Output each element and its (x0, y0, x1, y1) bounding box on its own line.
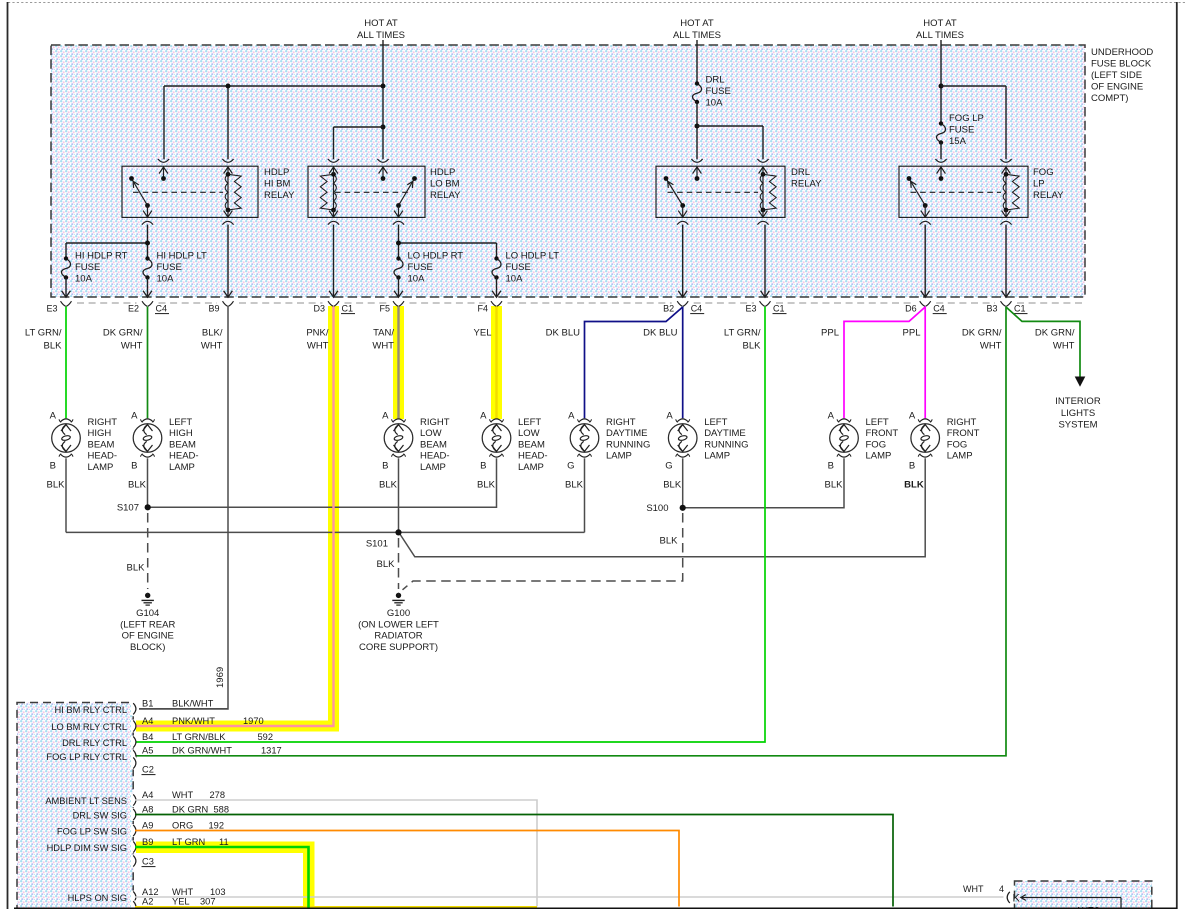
svg-text:HI BM: HI BM (264, 179, 290, 190)
svg-text:HEAD-: HEAD- (169, 451, 199, 462)
svg-text:ORG: ORG (172, 820, 193, 830)
svg-text:DK GRN: DK GRN (172, 804, 208, 814)
svg-text:B: B (382, 461, 388, 472)
svg-text:A4: A4 (142, 716, 153, 726)
svg-text:PPL: PPL (821, 328, 839, 339)
relay K2 HDLP LO BM box (308, 166, 425, 217)
connector E3/C1 at x=765 (760, 301, 771, 306)
connector B9 at x=228 (223, 301, 234, 306)
svg-text:A: A (131, 411, 138, 422)
connector F4 at x=496.5 (491, 301, 502, 306)
headlamp switch box (dashed, blue fill) (1015, 881, 1152, 909)
svg-text:BLK: BLK (127, 563, 146, 574)
svg-text:TAN/: TAN/ (373, 328, 394, 339)
lamp: left front fog lamp (830, 424, 859, 453)
svg-text:LAMP: LAMP (606, 451, 632, 462)
svg-text:WHT: WHT (172, 790, 193, 800)
svg-text:BLK/WHT: BLK/WHT (172, 699, 214, 709)
svg-text:A8: A8 (142, 804, 153, 814)
svg-text:A9: A9 (142, 820, 153, 830)
svg-text:G100: G100 (387, 608, 410, 619)
svg-text:HEAD-: HEAD- (88, 451, 118, 462)
wire ORG A9 fog lamp switch signal (circuit 192) (135, 831, 679, 907)
wire FOG coil out to border B3 (1005, 225, 1007, 297)
svg-text:B9: B9 (208, 304, 219, 314)
svg-text:B3: B3 (986, 304, 997, 314)
relay K1 HDLP HI BM actuator dashed link (133, 191, 223, 193)
svg-text:LOW: LOW (420, 428, 442, 439)
svg-text:FUSE: FUSE (75, 262, 100, 273)
wire BLK left DRL to S100 (682, 458, 684, 508)
svg-text:103: 103 (210, 887, 226, 897)
svg-text:HOT AT: HOT AT (680, 18, 714, 29)
svg-text:E2: E2 (128, 304, 139, 314)
svg-text:C1: C1 (773, 304, 785, 314)
relay K1 HDLP HI BM switch blade (132, 179, 148, 206)
svg-text:HLPS ON SIG: HLPS ON SIG (68, 893, 127, 903)
svg-text:HOT AT: HOT AT (923, 18, 957, 29)
relay K4 FOG LP coil bottom pin (1005, 210, 1007, 217)
feed wire 1 (x=383) (382, 40, 384, 159)
relay K1 HDLP HI BM switch feed pin (158, 159, 169, 162)
relay K3 DRL switch output pin (682, 206, 684, 218)
svg-text:ALL TIMES: ALL TIMES (357, 30, 405, 41)
svg-text:A: A (828, 411, 835, 422)
relay K1 HDLP HI BM switch output pin (147, 206, 149, 218)
svg-text:AMBIENT LT SENS: AMBIENT LT SENS (45, 796, 127, 806)
svg-text:LT GRN/: LT GRN/ (25, 328, 62, 339)
svg-text:1969: 1969 (215, 667, 226, 688)
svg-text:HDLP: HDLP (430, 167, 455, 178)
relay K2 HDLP LO BM coil top pin (328, 159, 339, 162)
relay K4 FOG LP switch output pin (924, 206, 926, 218)
LO HDLP RT FUSE 10A (394, 259, 403, 278)
svg-text:D3: D3 (313, 304, 325, 314)
svg-text:DK GRN/WHT: DK GRN/WHT (172, 746, 232, 756)
svg-text:592: 592 (258, 732, 274, 742)
wire BLK/WHT row B1 (drawn above) joins corner (139, 708, 228, 710)
svg-text:10A: 10A (75, 274, 93, 285)
connector D3/C1 at x=333.5 (328, 301, 339, 306)
svg-text:LAMP: LAMP (866, 451, 892, 462)
svg-text:BLK: BLK (477, 480, 496, 491)
svg-text:RELAY: RELAY (264, 190, 295, 201)
wire DK GRN A8 DRL switch signal (circuit 588) (135, 815, 893, 907)
svg-text:G: G (567, 461, 574, 472)
svg-text:278: 278 (210, 790, 226, 800)
svg-text:RIGHT: RIGHT (947, 417, 977, 428)
svg-text:RIGHT: RIGHT (88, 417, 118, 428)
svg-text:LAMP: LAMP (88, 462, 114, 473)
page border top dotted (8, 2, 1187, 4)
svg-text:DK GRN/: DK GRN/ (103, 328, 143, 339)
svg-text:A: A (50, 411, 57, 422)
svg-text:FUSE: FUSE (949, 125, 974, 136)
dashed BLK S101 to G100 (398, 538, 400, 589)
relay K1 HDLP HI BM coil top pin (222, 159, 233, 162)
svg-text:BLOCK): BLOCK) (130, 642, 165, 653)
wire BLK left low beam to S107 (148, 458, 497, 507)
svg-text:1970: 1970 (243, 716, 264, 726)
svg-text:DAYTIME: DAYTIME (606, 428, 648, 439)
wire LT GRN/BLK E3 to right high beam (65, 307, 67, 419)
lamp: right high beam headlamp (52, 424, 81, 453)
svg-text:C2: C2 (142, 765, 154, 775)
BCM connector C2 (131, 757, 136, 770)
svg-text:C1: C1 (342, 304, 354, 314)
svg-text:LO BM RLY CTRL: LO BM RLY CTRL (51, 722, 127, 732)
svg-text:LOW: LOW (518, 428, 540, 439)
highlight over PNK/WHT wire (D3/C1 to A4) (328, 306, 339, 732)
relay K2 HDLP LO BM coil bottom pin (333, 210, 335, 217)
svg-text:192: 192 (209, 820, 225, 830)
BCM pin A12 WHT (131, 891, 136, 904)
svg-text:HDLP DIM SW SIG: HDLP DIM SW SIG (47, 843, 127, 853)
BCM connector C3 (131, 855, 136, 868)
svg-text:E3: E3 (46, 304, 57, 314)
svg-text:YEL: YEL (474, 328, 492, 339)
svg-text:10A: 10A (706, 98, 724, 109)
svg-text:RUNNING: RUNNING (704, 439, 748, 450)
svg-text:11: 11 (219, 837, 229, 847)
svg-text:B: B (50, 461, 56, 472)
connector face dashed line (77, 302, 137, 304)
svg-text:LO BM: LO BM (430, 179, 460, 190)
svg-text:B: B (909, 461, 915, 472)
relay K1 HDLP HI BM coil bottom pin (227, 210, 229, 217)
svg-text:FOG LP RLY CTRL: FOG LP RLY CTRL (46, 752, 127, 762)
wire YEL A2 (circuit 307) (135, 906, 537, 908)
wire WHT A12 headlamps-on signal (circuit 103) (135, 896, 1004, 898)
BCM pin A8 DK GRN (131, 808, 136, 821)
connector B2/C4 at x=682.7 (677, 301, 688, 306)
BCM pin A2 YEL (131, 900, 136, 913)
svg-text:BLK: BLK (565, 480, 584, 491)
BCM pin B1 BLK/WHT (131, 702, 136, 715)
svg-text:FUSE: FUSE (706, 86, 731, 97)
BCM pin A9 ORG (131, 824, 136, 837)
wire DRL sw out to border B2 (682, 225, 684, 297)
connector half at headlamp switch (1007, 892, 1010, 903)
wire HI BM relay sw out to fuse junction (147, 225, 149, 259)
lamp: left low beam headlamp (482, 424, 511, 453)
svg-text:LO HDLP LT: LO HDLP LT (506, 251, 560, 262)
relay K2 HDLP LO BM actuator dashed link (335, 191, 410, 193)
svg-text:BLK: BLK (379, 480, 398, 491)
svg-text:B9: B9 (142, 837, 153, 847)
svg-text:BLK: BLK (47, 480, 66, 491)
wire PPL D6/C4 to right fog lamp (924, 307, 926, 419)
svg-text:B: B (828, 461, 834, 472)
highlight over TAN/WHT wire (F5) (393, 306, 404, 419)
relay K2 HDLP LO BM switch feed pin (377, 159, 388, 162)
wire TAN/WHT F5 to right low beam (397, 307, 399, 419)
svg-text:RELAY: RELAY (1033, 190, 1064, 201)
svg-text:A5: A5 (142, 746, 153, 756)
lamp: left daytime running lamp (668, 424, 697, 453)
svg-text:HIGH: HIGH (169, 428, 193, 439)
svg-text:B: B (131, 461, 137, 472)
svg-text:HDLP: HDLP (264, 167, 289, 178)
svg-text:A: A (909, 411, 916, 422)
junction dots feed 1 (226, 84, 231, 89)
wire to HI BM relay coil pin (227, 86, 229, 159)
svg-text:RADIATOR: RADIATOR (374, 631, 422, 642)
dashed BLK S107 to G104 (147, 513, 149, 589)
wire DK GRN/WHT E2/C4 to left high beam (147, 307, 149, 419)
svg-text:A4: A4 (142, 790, 153, 800)
wire BLK right low beam to S101 (398, 458, 400, 532)
svg-text:FOG: FOG (866, 439, 887, 450)
svg-text:S107: S107 (117, 503, 139, 514)
wire BLK right high beam to S101 bus (65, 458, 67, 532)
svg-text:FOG: FOG (947, 439, 968, 450)
svg-text:15A: 15A (949, 136, 967, 147)
wire BLK left fog to S100 (683, 458, 844, 508)
splice S107 (145, 504, 151, 510)
svg-text:C4: C4 (156, 304, 168, 314)
svg-text:INTERIOR: INTERIOR (1055, 396, 1101, 407)
branch to LO BM relay coil (334, 126, 384, 128)
wire BLK right fog to S101 (400, 458, 925, 557)
branch to DRL relay coil (697, 125, 763, 127)
svg-text:RELAY: RELAY (791, 179, 822, 190)
BCM pin A4 WHT (131, 794, 136, 807)
svg-text:LAMP: LAMP (947, 451, 973, 462)
svg-text:A12: A12 (142, 887, 159, 897)
svg-text:PNK/: PNK/ (306, 328, 329, 339)
svg-text:BLK: BLK (825, 480, 844, 491)
svg-text:G104: G104 (136, 608, 159, 619)
svg-text:FUSE: FUSE (157, 262, 182, 273)
BCM pin A5 DK GRN/WHT (131, 749, 136, 762)
svg-text:BLK: BLK (743, 341, 762, 352)
wire DK GRN/WHT B3/C1 to BCM A5 (circuit 1317) (135, 307, 1006, 756)
svg-text:BEAM: BEAM (88, 439, 115, 450)
svg-text:OF ENGINE: OF ENGINE (1091, 82, 1143, 93)
svg-text:PPL: PPL (903, 328, 921, 339)
svg-text:BLK: BLK (44, 341, 63, 352)
wire LT GRN B9 headlamp dim switch signal (circuit 11) (135, 847, 309, 908)
splice S100 (680, 505, 686, 511)
relay K4 FOG LP coil (1005, 174, 1007, 210)
connector E2/C4 at x=147.5 (142, 301, 153, 306)
svg-text:HI HDLP RT: HI HDLP RT (75, 251, 128, 262)
relay K4 FOG LP coil top pin (1000, 159, 1011, 162)
svg-text:F5: F5 (379, 304, 390, 314)
svg-text:4: 4 (999, 884, 1004, 894)
svg-text:HEAD-: HEAD- (420, 451, 450, 462)
svg-text:RELAY: RELAY (430, 190, 461, 201)
svg-text:C4: C4 (933, 304, 945, 314)
svg-text:WHT: WHT (980, 341, 1002, 352)
relay K3 DRL switch feed pin (691, 159, 702, 162)
wire HI BM coil out to border B9 (227, 225, 229, 297)
svg-text:WHT: WHT (963, 884, 984, 894)
relay K3 DRL coil bottom pin (762, 210, 764, 217)
svg-text:(LEFT SIDE: (LEFT SIDE (1091, 70, 1142, 81)
svg-text:WHT: WHT (172, 887, 193, 897)
relay K1 HDLP HI BM coil (227, 174, 229, 210)
BCM pin B4 LT GRN/BLK (131, 736, 136, 749)
svg-text:FUSE BLOCK: FUSE BLOCK (1091, 59, 1152, 70)
svg-text:C1: C1 (1014, 304, 1026, 314)
svg-text:UNDERHOOD: UNDERHOOD (1091, 47, 1153, 58)
svg-text:YEL: YEL (172, 897, 190, 907)
HI HDLP RT FUSE 10A (62, 259, 71, 278)
svg-text:LAMP: LAMP (518, 462, 544, 473)
svg-text:FRONT: FRONT (947, 428, 980, 439)
svg-text:A2: A2 (142, 897, 153, 907)
svg-text:BLK: BLK (660, 536, 679, 547)
page bottom section divider bar (14, 908, 1177, 910)
svg-text:DRL: DRL (706, 75, 725, 86)
connector B3/C1 at x=1006 (1001, 301, 1012, 306)
DRL FUSE 10A (693, 84, 702, 103)
dashed BLK S100 to G100 (403, 513, 683, 590)
wire DK BLU B2/C4 to left DRL lamp (682, 307, 684, 419)
svg-text:B: B (480, 461, 486, 472)
relay K3 DRL coil top pin (757, 159, 768, 162)
junction dot feed 2 (695, 124, 700, 129)
svg-text:DK GRN/: DK GRN/ (1035, 328, 1075, 339)
svg-text:307: 307 (200, 897, 216, 907)
wire BLK left high beam to S107 (147, 458, 149, 507)
wires fuses to border (E3,E2) (65, 278, 67, 297)
relay K2 HDLP LO BM switch blade (399, 179, 415, 206)
wire DK GRN/WHT branch to interior lights system (1006, 307, 1080, 378)
highlight over LT GRN wire (B9 HDLP DIM SW SIG) (135, 842, 314, 854)
svg-text:B1: B1 (142, 699, 153, 709)
connector D6/C4 at x=925.2 (920, 301, 931, 306)
wire PPL D6/C4 to left fog lamp (844, 307, 925, 418)
svg-text:1317: 1317 (261, 746, 282, 756)
relay K2 HDLP LO BM switch output pin (398, 206, 400, 218)
svg-text:D6: D6 (905, 304, 917, 314)
svg-text:HI BM RLY CTRL: HI BM RLY CTRL (55, 705, 128, 715)
svg-text:RIGHT: RIGHT (420, 417, 450, 428)
svg-text:WHT: WHT (1053, 341, 1075, 352)
svg-text:FUSE: FUSE (506, 262, 531, 273)
svg-text:C3: C3 (142, 857, 154, 867)
svg-text:FRONT: FRONT (866, 428, 899, 439)
svg-text:BEAM: BEAM (169, 439, 196, 450)
feed wire 3 (x=941) (940, 40, 942, 124)
svg-text:LEFT: LEFT (704, 417, 727, 428)
ground G104 (145, 593, 150, 598)
svg-text:B2: B2 (663, 304, 674, 314)
wire FOG sw out to border D6 (924, 225, 926, 297)
lamp: right daytime running lamp (570, 424, 599, 453)
relay K4 FOG LP switch blade (909, 179, 925, 206)
svg-text:DK BLU: DK BLU (546, 328, 580, 339)
svg-text:HIGH: HIGH (88, 428, 112, 439)
svg-text:BEAM: BEAM (420, 439, 447, 450)
svg-text:BLK: BLK (377, 559, 396, 570)
page border left (7, 2, 9, 909)
svg-text:LAMP: LAMP (420, 462, 446, 473)
wire DRL coil out to border E3 (764, 225, 766, 297)
splice S101 (395, 529, 401, 535)
svg-text:WHT: WHT (307, 341, 329, 352)
svg-text:S101: S101 (366, 539, 388, 550)
lamp: right low beam headlamp (384, 424, 413, 453)
svg-text:WHT: WHT (201, 341, 223, 352)
svg-text:WHT: WHT (121, 341, 143, 352)
junction dot feed 3 (939, 84, 944, 89)
svg-text:LT GRN: LT GRN (172, 837, 205, 847)
feed wire 2 (x=697) (696, 40, 698, 84)
svg-text:LAMP: LAMP (704, 451, 730, 462)
svg-text:BLK: BLK (663, 480, 682, 491)
relay K3 DRL actuator dashed link (668, 191, 759, 193)
svg-text:DRL: DRL (791, 167, 810, 178)
svg-text:A: A (382, 411, 389, 422)
svg-text:BEAM: BEAM (518, 439, 545, 450)
connector F5 at x=398.5 (393, 301, 404, 306)
svg-text:BLK: BLK (904, 480, 924, 491)
svg-text:LO HDLP RT: LO HDLP RT (408, 251, 464, 262)
svg-text:PNK/WHT: PNK/WHT (172, 716, 215, 726)
svg-text:WHT: WHT (372, 341, 394, 352)
svg-text:DK BLU: DK BLU (643, 328, 677, 339)
svg-text:F4: F4 (477, 304, 488, 314)
connector E3 at x=66 (61, 301, 72, 306)
svg-text:DRL SW SIG: DRL SW SIG (73, 811, 127, 821)
svg-text:LAMP: LAMP (169, 462, 195, 473)
svg-text:G: G (665, 461, 672, 472)
lamp: left high beam headlamp (133, 424, 162, 453)
svg-text:A: A (480, 411, 487, 422)
lamp: right front fog lamp (911, 424, 940, 453)
LO HDLP LT FUSE 10A (492, 259, 501, 278)
FOG LP FUSE 15A (937, 124, 946, 143)
svg-text:DRL RLY CTRL: DRL RLY CTRL (62, 738, 127, 748)
page border right (1176, 2, 1178, 909)
svg-text:LEFT: LEFT (169, 417, 192, 428)
svg-text:FOG: FOG (1033, 167, 1054, 178)
svg-text:DK GRN/: DK GRN/ (962, 328, 1002, 339)
svg-text:588: 588 (214, 804, 230, 814)
svg-text:BLK/: BLK/ (202, 328, 223, 339)
svg-text:OF ENGINE: OF ENGINE (122, 631, 174, 642)
branch to FOG LP relay coil (941, 85, 1006, 87)
svg-text:ALL TIMES: ALL TIMES (916, 30, 964, 41)
relay K1 HDLP HI BM box (122, 166, 258, 217)
svg-text:LT GRN/: LT GRN/ (724, 328, 761, 339)
svg-text:CORE SUPPORT): CORE SUPPORT) (359, 642, 438, 653)
relay K2 HDLP LO BM coil (333, 174, 335, 210)
svg-text:FOG LP: FOG LP (949, 113, 984, 124)
svg-text:HOT AT: HOT AT (364, 18, 398, 29)
wire BLK S101 bus (66, 531, 585, 533)
svg-text:LP: LP (1033, 179, 1045, 190)
BCM pin A4 PNK/WHT (131, 720, 136, 733)
svg-text:LEFT: LEFT (518, 417, 541, 428)
svg-text:E3: E3 (745, 304, 756, 314)
wire BLK/WHT B9 to BCM B1 (circuit 1969) (139, 307, 228, 710)
svg-text:(LEFT REAR: (LEFT REAR (120, 619, 175, 630)
underhood fuse block (dashed box, blue fill) (51, 45, 1085, 297)
wire BLK right DRL to S101 bus (584, 458, 586, 532)
svg-text:DAYTIME: DAYTIME (704, 428, 746, 439)
svg-text:LEFT: LEFT (866, 417, 889, 428)
wires fuses to border (F5,F4) (398, 278, 400, 297)
svg-text:HI HDLP LT: HI HDLP LT (157, 251, 208, 262)
svg-text:C4: C4 (691, 304, 703, 314)
svg-text:A: A (568, 411, 575, 422)
svg-text:K: K (1013, 893, 1021, 905)
